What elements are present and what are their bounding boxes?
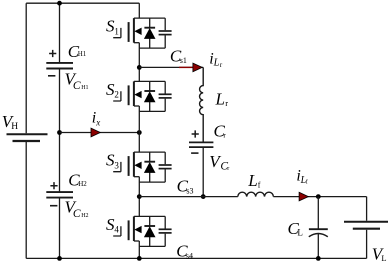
transistor S3 (MOSFET with body diode and parallel snubber capacitor) (129, 152, 172, 182)
svg-text:r: r (220, 61, 223, 69)
wire: switch leg below S2 (138, 106, 140, 152)
wire: i_x middle wire (60, 132, 140, 134)
node: output junction (316, 194, 321, 199)
battery V_L (344, 197, 388, 259)
node: S4 source / bottom rail junction (137, 256, 142, 261)
svg-text:1: 1 (114, 26, 119, 36)
wire: left rail lower (25, 142, 27, 258)
node: mid-left junction (57, 130, 62, 135)
wire: top rail (26, 2, 139, 4)
node C_s3 (137, 194, 142, 199)
label L_r (215, 89, 229, 108)
label + (C_H1) (49, 50, 56, 57)
node: top junction (57, 1, 62, 6)
label L_f (247, 171, 261, 190)
label V_H (2, 112, 19, 132)
label C_L (288, 219, 303, 238)
label - (C_H2) (50, 205, 57, 207)
node: i_x right junction (137, 130, 142, 135)
svg-text:x: x (95, 118, 100, 128)
label i_Lf (296, 168, 307, 186)
wire: switch leg below S4 (138, 241, 140, 258)
svg-text:4: 4 (114, 225, 119, 235)
label C_r (214, 122, 227, 141)
svg-text:H2: H2 (78, 180, 87, 188)
inductor L_f (238, 192, 274, 196)
node C_s1 (137, 65, 142, 70)
svg-text:s4: s4 (186, 251, 193, 260)
svg-text:f: f (258, 181, 261, 190)
svg-text:f: f (306, 179, 308, 186)
label S1 with gate bracket (106, 17, 121, 38)
node: bottom output junction (316, 256, 321, 261)
capacitor C_L (polarized) (309, 197, 328, 259)
svg-text:3: 3 (114, 160, 119, 170)
capacitor C_r (189, 142, 213, 147)
svg-text:r: r (223, 132, 226, 140)
arrow i_Lr (red tail + head) (179, 63, 202, 72)
wire: C_H branch lower (59, 198, 61, 259)
wire: C_r to output wire (202, 147, 204, 197)
label V_CH2 (65, 197, 89, 220)
label V_CH1 (65, 69, 89, 92)
svg-text:L: L (297, 228, 303, 238)
transistor S1 (MOSFET with body diode and parallel snubber capacitor) (129, 18, 172, 48)
label V_Cr (209, 152, 229, 173)
label V_L (372, 244, 387, 263)
wire: left rail upper (25, 3, 27, 133)
label C_H1 (68, 42, 87, 61)
label S3 with gate bracket (106, 151, 121, 172)
capacitor C_H2 (46, 192, 73, 198)
label - (C_r) (191, 152, 198, 154)
label S2 with gate bracket (106, 80, 121, 101)
svg-text:H1: H1 (78, 50, 87, 58)
svg-text:H: H (11, 122, 18, 132)
inductor L_r (200, 67, 204, 142)
label S4 with gate bracket (106, 215, 121, 236)
label C_s4 (176, 241, 193, 260)
node: C_r / output wire junction (201, 194, 206, 199)
label C_s3 (177, 177, 194, 196)
wire: C_H branch middle (59, 69, 61, 193)
wire: L_f to output node (273, 196, 366, 198)
svg-text:C: C (73, 208, 81, 220)
svg-text:L: L (215, 89, 225, 108)
svg-text:r: r (225, 98, 228, 108)
label + (C_H2) (50, 182, 57, 189)
label i_x (92, 110, 100, 128)
svg-text:r: r (227, 166, 229, 172)
label + (C_r) (192, 130, 199, 137)
svg-text:H2: H2 (81, 213, 88, 219)
wire: C_s3 node to L_f (139, 196, 238, 198)
arrow i_x (91, 128, 100, 137)
arrow i_Lf (299, 192, 308, 201)
wire: switch leg below S1 (138, 43, 140, 82)
battery V_H (7, 134, 48, 141)
label i_Lr (209, 51, 223, 69)
wire: C_s1 node to resonant branch (139, 66, 203, 68)
wire: switch leg below S3 (138, 177, 140, 217)
svg-text:H1: H1 (81, 85, 88, 91)
wire: switch leg top segment (138, 3, 140, 18)
node: bottom-left junction (57, 256, 62, 261)
svg-text:s1: s1 (180, 56, 187, 65)
svg-text:2: 2 (114, 90, 119, 100)
svg-text:L: L (213, 58, 220, 69)
transistor S2 (MOSFET with body diode and parallel snubber capacitor) (129, 81, 172, 111)
label - (C_H1) (48, 75, 55, 77)
wire: C_H branch upper (59, 3, 61, 63)
wire: bottom rail (26, 257, 366, 259)
svg-text:L: L (381, 253, 386, 263)
svg-text:s3: s3 (186, 187, 193, 196)
svg-text:L: L (247, 171, 257, 190)
transistor S4 (MOSFET with body diode and parallel snubber capacitor) (129, 216, 172, 246)
capacitor C_H1 (46, 63, 73, 69)
label C_s1 (170, 47, 187, 66)
label C_H2 (68, 171, 87, 190)
svg-text:C: C (73, 80, 81, 92)
